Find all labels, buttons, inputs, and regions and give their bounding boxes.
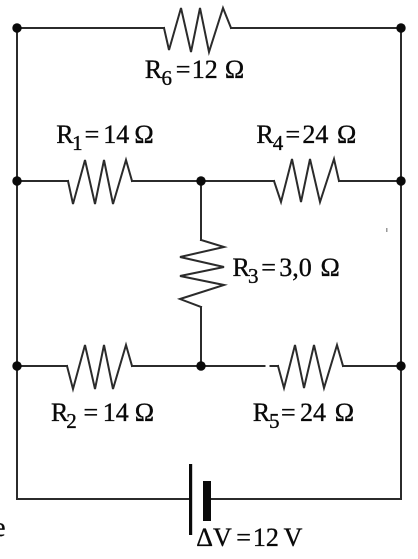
wire left vertical bbox=[16, 28, 18, 499]
wire center vertical lower bbox=[200, 307, 202, 366]
resistor R4 bbox=[274, 159, 339, 202]
node lower-center bbox=[196, 361, 205, 370]
svg-text:R4=24Ω: R4=24Ω bbox=[256, 120, 356, 155]
resistor R2 bbox=[67, 345, 132, 389]
svg-text:R6=12Ω: R6=12Ω bbox=[145, 55, 244, 90]
wire bottom right segment bbox=[211, 498, 401, 500]
wire middle row right bbox=[339, 180, 401, 182]
svg-text:R1=14Ω: R1=14Ω bbox=[56, 120, 153, 155]
wire lower row right bbox=[343, 365, 401, 367]
svg-text:R5=24Ω: R5=24Ω bbox=[253, 398, 354, 433]
svg-text:e: e bbox=[0, 512, 6, 542]
resistor R5 bbox=[278, 345, 343, 388]
node middle-right bbox=[396, 176, 405, 185]
wire lower row center-right stub bbox=[271, 365, 279, 367]
node top-right bbox=[396, 23, 405, 32]
node middle-left bbox=[12, 176, 21, 185]
wire bottom left segment bbox=[17, 498, 189, 500]
svg-text:ΔV=12V: ΔV=12V bbox=[196, 523, 302, 552]
wire top-left segment bbox=[17, 27, 164, 29]
svg-text:R2=14Ω: R2=14Ω bbox=[51, 398, 154, 433]
wire lower row left bbox=[17, 365, 67, 367]
wire middle row center bbox=[132, 180, 274, 182]
wire lower row center bbox=[132, 365, 265, 367]
node top-left bbox=[12, 23, 21, 32]
node lower-left bbox=[12, 361, 21, 370]
wire center vertical upper bbox=[200, 181, 202, 240]
wire middle row left bbox=[17, 180, 68, 182]
stray tick mark right side bbox=[386, 228, 388, 232]
node lower-right bbox=[396, 361, 405, 370]
resistor R6 bbox=[164, 8, 231, 52]
resistor R1 bbox=[68, 160, 132, 204]
resistor R3 bbox=[180, 240, 224, 307]
battery V1 long plate bbox=[189, 464, 192, 535]
wire right vertical bbox=[400, 28, 402, 499]
svg-text:R3=3,0Ω: R3=3,0Ω bbox=[233, 253, 340, 288]
wire top-right segment bbox=[231, 27, 401, 29]
node middle-center bbox=[196, 176, 205, 185]
battery V1 short plate bbox=[203, 481, 211, 521]
